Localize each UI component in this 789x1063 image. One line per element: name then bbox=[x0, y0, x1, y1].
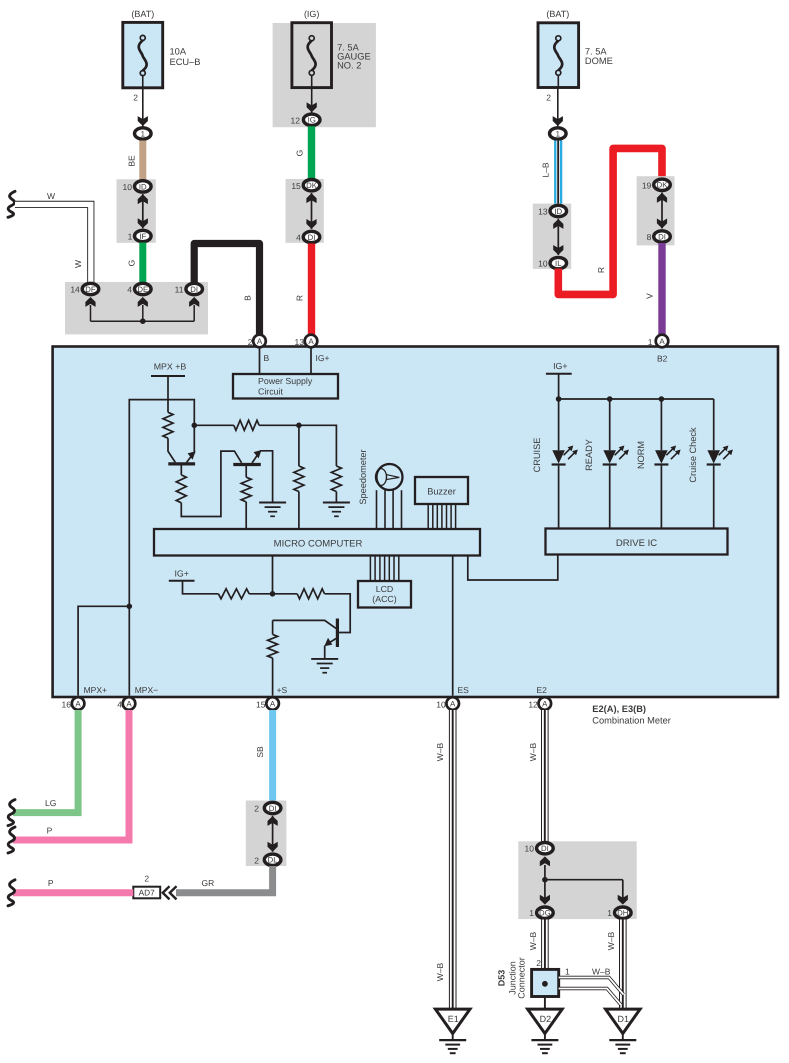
connector 13 ID bbox=[538, 205, 566, 216]
svg-text:DH: DH bbox=[617, 909, 628, 918]
svg-text:MPX+: MPX+ bbox=[84, 685, 107, 695]
connector 16 A bbox=[62, 697, 85, 710]
transistor Q1 bbox=[168, 451, 195, 475]
svg-text:W: W bbox=[73, 260, 83, 268]
resistor R1 bbox=[163, 412, 173, 438]
gray block DK/DI middle bbox=[286, 179, 324, 243]
pin label MPX- bbox=[135, 685, 158, 695]
wire Q2 collector to ground bbox=[260, 451, 272, 503]
svg-text:13: 13 bbox=[295, 337, 305, 347]
connector 1 IF bbox=[128, 230, 152, 241]
wire R3 to node B and corner bbox=[259, 425, 336, 466]
fuse 10A ECU-B (BAT) bbox=[123, 9, 201, 88]
connector 12 A bbox=[528, 697, 551, 710]
wire node A to R3 bbox=[194, 424, 234, 426]
svg-text:MPX +B: MPX +B bbox=[154, 362, 187, 372]
connector 11 DI bbox=[175, 283, 203, 294]
connector 4 A bbox=[117, 697, 135, 710]
svg-text:DK: DK bbox=[657, 181, 669, 190]
wire R7 to node C bbox=[249, 593, 272, 595]
bus line under DF/DE/DI with junction dot bbox=[91, 318, 195, 324]
fuse 7.5A DOME (BAT) bbox=[538, 9, 613, 88]
connector 2 DI (bottom) bbox=[254, 802, 281, 813]
combination meter box bbox=[53, 347, 778, 698]
svg-text:4: 4 bbox=[117, 700, 122, 710]
arrow into DF bbox=[85, 297, 95, 321]
pin label IG+ bbox=[316, 353, 330, 363]
svg-text:DI: DI bbox=[190, 285, 198, 294]
LCD (ACC) box bbox=[358, 581, 411, 608]
svg-text:DG: DG bbox=[539, 909, 551, 918]
connector 10 DI (bottom right) bbox=[525, 843, 554, 854]
wire node C to R8 bbox=[273, 593, 298, 595]
svg-text:Power Supply: Power Supply bbox=[258, 376, 313, 386]
svg-text:12: 12 bbox=[528, 700, 538, 710]
resistor R6 bbox=[241, 477, 251, 502]
junction arrows DK-DI bbox=[306, 193, 316, 229]
svg-text:E1: E1 bbox=[448, 1014, 459, 1024]
svg-text:2: 2 bbox=[254, 855, 259, 865]
transistor Q3 bbox=[324, 619, 337, 648]
rail MPX +B bbox=[151, 362, 186, 413]
svg-text:LCD: LCD bbox=[376, 584, 394, 594]
svg-text:12: 12 bbox=[291, 115, 301, 125]
ground (Q2) bbox=[259, 503, 286, 517]
svg-text:4: 4 bbox=[296, 233, 301, 243]
svg-text:DI: DI bbox=[269, 804, 277, 813]
connector 1 DH bbox=[607, 907, 631, 918]
speedometer gauge icon bbox=[376, 464, 403, 490]
wire micro computer to drive IC bbox=[468, 555, 558, 580]
arrow into connector IG bbox=[307, 102, 317, 112]
wire +S riser bottom bbox=[272, 658, 274, 695]
rail IG+ (lower) bbox=[169, 569, 219, 594]
svg-text:MPX−: MPX− bbox=[135, 685, 158, 695]
svg-text:W–B: W–B bbox=[606, 931, 616, 950]
squiggle W wire end bbox=[8, 191, 15, 217]
wire R2 to Q2 base bbox=[181, 451, 241, 516]
pin label ES bbox=[458, 685, 470, 695]
ground (R4) bbox=[323, 503, 350, 517]
svg-text:D53: D53 bbox=[497, 970, 507, 987]
svg-text:2: 2 bbox=[254, 804, 259, 814]
connector 12 IG bbox=[303, 114, 320, 125]
connector 1 DG bbox=[529, 907, 553, 918]
svg-text:E2(A), E3(B): E2(A), E3(B) bbox=[592, 704, 646, 714]
wire G green (middle) bbox=[295, 126, 312, 178]
svg-text:7. 5A: 7. 5A bbox=[585, 47, 608, 57]
wire G green (left) bbox=[127, 243, 143, 283]
svg-text:GR: GR bbox=[202, 878, 215, 888]
wire P (MPX-) bbox=[13, 710, 129, 840]
svg-text:IL: IL bbox=[555, 259, 562, 268]
svg-text:(IG): (IG) bbox=[304, 9, 320, 19]
wire +S riser top bbox=[272, 620, 274, 634]
junction arrows DK-DI right bbox=[657, 193, 667, 229]
wire D53 branch upper bbox=[559, 967, 624, 995]
connector 15 A bbox=[256, 697, 279, 710]
resistor R2 bbox=[176, 475, 186, 503]
svg-text:BE: BE bbox=[127, 155, 137, 167]
svg-text:4: 4 bbox=[127, 285, 132, 295]
gray block DF/DE/DI bbox=[65, 282, 208, 334]
svg-text:16: 16 bbox=[62, 700, 72, 710]
svg-text:NO. 2: NO. 2 bbox=[337, 61, 361, 71]
connector 2 A bbox=[248, 335, 266, 348]
connector 4 DI (middle) bbox=[296, 231, 320, 242]
pin label B2 bbox=[657, 354, 668, 364]
wire node A to Q1 emitter bbox=[193, 425, 195, 453]
svg-text:P: P bbox=[48, 878, 54, 888]
ground (Q3) bbox=[311, 659, 338, 673]
buzzer box bbox=[415, 477, 468, 504]
label E2(A), E3(B) Combination Meter bbox=[592, 704, 671, 726]
svg-text:W–B: W–B bbox=[528, 931, 538, 950]
LED NORM bbox=[636, 399, 681, 529]
svg-text:2: 2 bbox=[536, 958, 541, 968]
svg-text:A: A bbox=[308, 337, 314, 346]
junction dot and branch bbox=[542, 877, 623, 900]
svg-text:Circuit: Circuit bbox=[258, 387, 283, 397]
svg-text:DK: DK bbox=[306, 181, 318, 190]
svg-text:IG+: IG+ bbox=[316, 353, 330, 363]
wire MPX- riser bbox=[129, 400, 194, 696]
connector 1 (left column) bbox=[135, 128, 152, 139]
connector 19 DK bbox=[642, 179, 670, 190]
wire R red (middle) bbox=[295, 244, 312, 336]
connector 10 IL bbox=[538, 257, 566, 268]
svg-text:10: 10 bbox=[538, 259, 548, 269]
wire R1 to Q1 collector bbox=[168, 438, 175, 462]
resistor R7 bbox=[218, 589, 249, 599]
svg-text:Connector: Connector bbox=[517, 957, 527, 999]
wire SB bbox=[255, 710, 273, 802]
chevrons into AD7 bbox=[163, 886, 177, 899]
svg-text:READY: READY bbox=[584, 439, 594, 471]
svg-text:A: A bbox=[450, 700, 456, 709]
connector 13 A bbox=[295, 335, 318, 348]
wire pin 12 from GAUGE fuse bbox=[291, 88, 312, 126]
wire L-B (blue/black) bbox=[541, 141, 559, 205]
transistor Q2 bbox=[233, 450, 261, 477]
svg-text:MICRO COMPUTER: MICRO COMPUTER bbox=[274, 539, 363, 550]
resistor R5 bbox=[294, 466, 304, 492]
D53 junction connector bbox=[497, 969, 559, 996]
wire A2 to power supply bbox=[259, 348, 261, 375]
svg-text:G: G bbox=[127, 260, 137, 267]
svg-text:1: 1 bbox=[607, 908, 612, 918]
junction arrows ID-IF bbox=[138, 194, 148, 228]
pin label E2 bbox=[537, 685, 548, 695]
svg-text:L–B: L–B bbox=[541, 162, 551, 177]
svg-text:W–B: W–B bbox=[435, 962, 445, 981]
arrow into connector 1 (right) bbox=[553, 116, 563, 126]
power supply circuit box bbox=[233, 374, 338, 399]
buzzer ribbon lines bbox=[428, 504, 455, 529]
wire R8 to Q3 collector bbox=[325, 594, 351, 633]
connector 1 A (B2) bbox=[648, 335, 669, 348]
svg-text:LG: LG bbox=[45, 798, 56, 808]
svg-text:15: 15 bbox=[256, 700, 266, 710]
svg-text:R: R bbox=[295, 295, 305, 301]
svg-text:A: A bbox=[257, 337, 263, 346]
squiggle P end bbox=[8, 827, 15, 853]
node C bbox=[270, 591, 276, 597]
svg-text:Cruise Check: Cruise Check bbox=[688, 427, 698, 483]
LED Cruise Check bbox=[688, 399, 733, 529]
svg-text:IF: IF bbox=[139, 232, 146, 241]
svg-text:1: 1 bbox=[141, 129, 145, 138]
speedometer lines bbox=[377, 490, 402, 529]
wire W-B (DG to D53) bbox=[528, 920, 545, 971]
resistor R9 bbox=[268, 634, 278, 658]
gray block DI/DG/DH bbox=[518, 841, 636, 919]
LED CRUISE bbox=[532, 399, 578, 529]
wire W-B (ES to E1) bbox=[435, 710, 453, 1008]
svg-text:W–B: W–B bbox=[592, 967, 611, 977]
svg-text:11: 11 bbox=[175, 285, 184, 295]
wire R red (loop) bbox=[558, 148, 662, 294]
svg-text:+S: +S bbox=[277, 685, 288, 695]
junction arrows ID-IL bbox=[553, 219, 563, 255]
wire LG bbox=[13, 710, 78, 813]
LED READY bbox=[584, 399, 629, 529]
node A (resistor row left) bbox=[192, 423, 198, 429]
svg-text:NORM: NORM bbox=[636, 441, 646, 469]
resistor R4 bbox=[331, 466, 341, 492]
connector 1 (right column) bbox=[550, 128, 567, 139]
svg-text:8: 8 bbox=[647, 232, 652, 242]
node B (resistor row right) bbox=[296, 423, 302, 429]
svg-text:DF: DF bbox=[85, 285, 96, 294]
gray block DI/DL bbox=[246, 801, 287, 867]
svg-text:(ACC): (ACC) bbox=[372, 594, 397, 604]
svg-text:1: 1 bbox=[529, 908, 534, 918]
svg-text:10: 10 bbox=[123, 182, 133, 192]
svg-text:P: P bbox=[47, 826, 53, 836]
svg-text:W–B: W–B bbox=[528, 742, 538, 761]
gray block DK/DI right bbox=[637, 176, 675, 245]
svg-text:B: B bbox=[243, 295, 253, 301]
pin label +S bbox=[277, 685, 288, 695]
connector 15 DK bbox=[291, 180, 319, 192]
svg-text:1: 1 bbox=[565, 967, 570, 977]
connector 10 ID bbox=[123, 181, 152, 192]
fuse 7.5A GAUGE NO.2 (IG) bbox=[292, 9, 371, 88]
wire Q3 base row bbox=[273, 620, 337, 628]
svg-text:W–B: W–B bbox=[435, 742, 445, 761]
svg-text:10: 10 bbox=[436, 700, 446, 710]
svg-text:10A: 10A bbox=[170, 47, 187, 57]
svg-text:DI: DI bbox=[308, 233, 316, 242]
pin label B bbox=[264, 353, 270, 363]
svg-text:2: 2 bbox=[144, 874, 149, 884]
arrow into DH bbox=[618, 895, 628, 905]
pin label MPX+ bbox=[84, 685, 107, 695]
svg-text:1: 1 bbox=[128, 232, 133, 242]
svg-text:DL: DL bbox=[268, 856, 279, 865]
svg-text:ID: ID bbox=[554, 207, 562, 216]
svg-text:19: 19 bbox=[642, 180, 652, 190]
label Speedometer bbox=[358, 449, 368, 504]
svg-text:E2: E2 bbox=[537, 685, 548, 695]
wire node B down bbox=[298, 425, 300, 466]
wire MPX+ to junction bbox=[78, 604, 132, 696]
wire B black bbox=[194, 244, 259, 336]
svg-text:SB: SB bbox=[255, 746, 265, 758]
svg-text:(BAT): (BAT) bbox=[546, 9, 569, 19]
connector 10 A bbox=[436, 697, 459, 710]
ground D1 bbox=[606, 1009, 641, 1053]
wire W (white) bbox=[15, 191, 91, 283]
wire V violet bbox=[645, 243, 663, 335]
svg-text:IG+: IG+ bbox=[174, 569, 188, 579]
svg-text:13: 13 bbox=[538, 207, 548, 217]
svg-text:IG: IG bbox=[308, 116, 316, 125]
micro computer box bbox=[154, 529, 480, 556]
svg-text:1: 1 bbox=[648, 337, 653, 347]
wire W-B (E2 to DI) bbox=[528, 710, 545, 842]
wire BE (beige) bbox=[127, 141, 143, 181]
wire R4 to ground bbox=[335, 492, 337, 503]
connector AD7 bbox=[133, 874, 160, 899]
svg-text:1: 1 bbox=[556, 129, 560, 138]
svg-text:DI: DI bbox=[658, 232, 666, 241]
squiggle P2 end bbox=[8, 880, 15, 906]
drive IC box bbox=[546, 529, 728, 555]
wire R5 to micro computer bbox=[298, 492, 300, 530]
arrow into DG bbox=[540, 895, 550, 905]
svg-text:A: A bbox=[126, 700, 132, 709]
svg-text:ECU–B: ECU–B bbox=[170, 57, 201, 67]
wire GR bbox=[176, 866, 273, 893]
label Junction Connector bbox=[508, 957, 527, 999]
rail IG+ (LED) bbox=[546, 361, 572, 399]
connector 4 DE bbox=[127, 283, 151, 294]
wire pin 2 from DOME fuse bbox=[546, 88, 558, 127]
wire P (AD7) bbox=[13, 878, 133, 893]
svg-text:D1: D1 bbox=[618, 1014, 630, 1024]
connector 2 DL bbox=[254, 854, 281, 865]
gray connector block around GAUGE fuse bbox=[273, 23, 376, 127]
LCD ribbon lines bbox=[370, 556, 398, 582]
svg-text:ID: ID bbox=[139, 182, 147, 191]
svg-text:R: R bbox=[596, 267, 606, 273]
LED bus line bbox=[556, 396, 714, 402]
connector 8 DI (right) bbox=[647, 231, 671, 242]
svg-text:D2: D2 bbox=[540, 1014, 552, 1024]
svg-text:DRIVE IC: DRIVE IC bbox=[616, 538, 657, 549]
svg-text:DOME: DOME bbox=[585, 56, 613, 66]
arrow into connector 1 (left) bbox=[138, 116, 148, 126]
svg-text:AD7: AD7 bbox=[139, 888, 156, 898]
squiggle LG end bbox=[8, 800, 15, 826]
wire micro computer to node C bbox=[272, 556, 274, 594]
svg-text:CRUISE: CRUISE bbox=[532, 438, 542, 473]
svg-text:DE: DE bbox=[137, 285, 148, 294]
svg-text:B2: B2 bbox=[657, 354, 668, 364]
wire Q3 emitter to ground bbox=[324, 646, 326, 659]
svg-text:A: A bbox=[270, 700, 276, 709]
svg-text:ES: ES bbox=[458, 685, 470, 695]
svg-text:10: 10 bbox=[525, 844, 535, 854]
svg-text:V: V bbox=[645, 293, 655, 299]
wire W-B (DH to D1) bbox=[606, 920, 623, 1009]
svg-text:W: W bbox=[47, 191, 55, 201]
arrow into DI bottom right bbox=[540, 856, 550, 879]
wire A13 to power supply bbox=[310, 348, 312, 375]
ground D2 bbox=[528, 1009, 563, 1053]
svg-text:2: 2 bbox=[248, 337, 253, 347]
resistor R8 bbox=[297, 589, 324, 599]
junction arrows DI-DL bbox=[268, 816, 278, 852]
svg-text:2: 2 bbox=[133, 93, 138, 103]
gray block ID/IF bbox=[117, 179, 156, 243]
wire D53 to D2 bbox=[544, 997, 546, 1010]
svg-text:Buzzer: Buzzer bbox=[427, 487, 456, 497]
wire R6 to micro computer bbox=[245, 502, 247, 529]
wire pin 2 from ECU-B fuse bbox=[133, 88, 143, 127]
svg-text:G: G bbox=[295, 150, 305, 157]
gray block ID/IL bbox=[533, 204, 571, 269]
arrow into DE bbox=[138, 297, 148, 321]
ground E1 bbox=[435, 1009, 470, 1053]
svg-text:2: 2 bbox=[546, 93, 551, 103]
svg-text:B: B bbox=[264, 353, 270, 363]
svg-text:A: A bbox=[75, 700, 81, 709]
svg-text:A: A bbox=[542, 700, 548, 709]
svg-text:Speedometer: Speedometer bbox=[358, 449, 368, 504]
wire ES inside box bbox=[452, 556, 454, 696]
svg-text:15: 15 bbox=[291, 181, 301, 191]
resistor R3 (row) bbox=[234, 420, 259, 430]
svg-text:DI: DI bbox=[541, 844, 549, 853]
arrow into DI bbox=[189, 297, 199, 321]
svg-text:IG+: IG+ bbox=[553, 361, 567, 371]
wire D53 branch lower bbox=[559, 989, 622, 1006]
svg-text:A: A bbox=[659, 337, 665, 346]
svg-text:14: 14 bbox=[70, 285, 80, 295]
svg-text:Combination Meter: Combination Meter bbox=[592, 716, 671, 726]
connector 14 DF bbox=[70, 283, 98, 294]
svg-text:(BAT): (BAT) bbox=[131, 9, 154, 19]
